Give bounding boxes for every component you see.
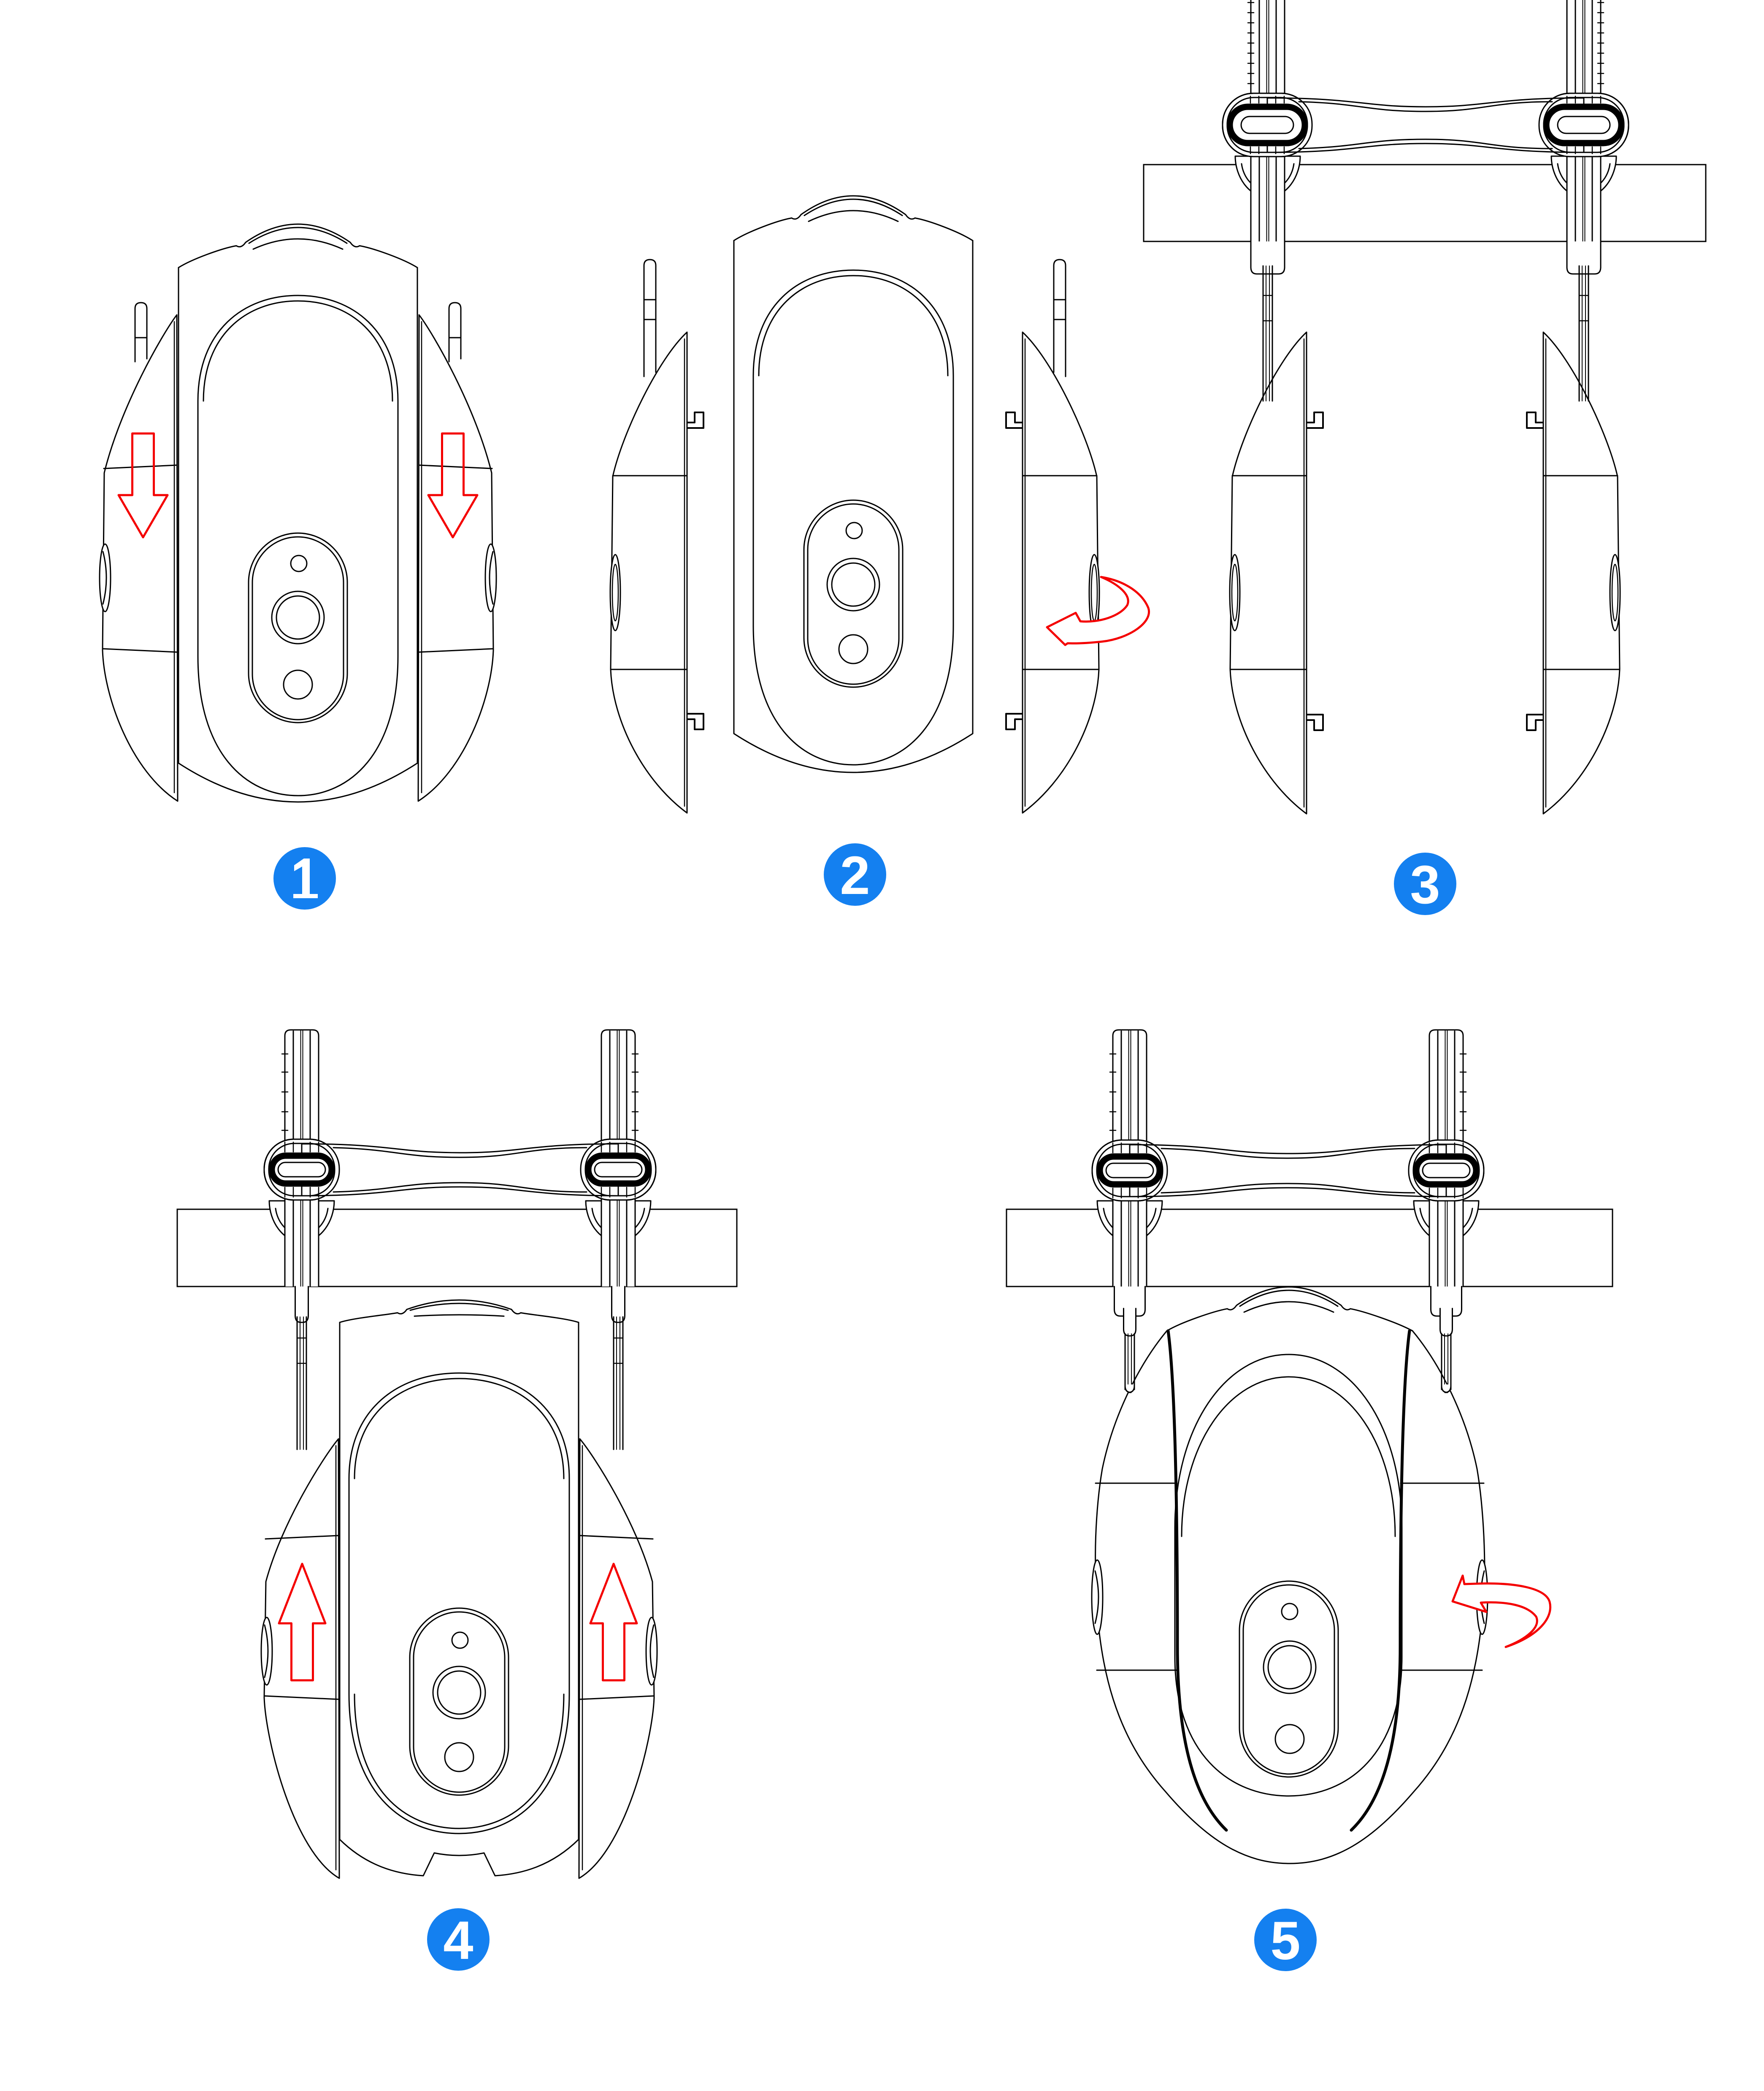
svg-text:4: 4 <box>443 1910 473 1971</box>
svg-text:5: 5 <box>1270 1911 1300 1971</box>
svg-text:3: 3 <box>1410 855 1440 915</box>
svg-text:2: 2 <box>840 845 870 906</box>
